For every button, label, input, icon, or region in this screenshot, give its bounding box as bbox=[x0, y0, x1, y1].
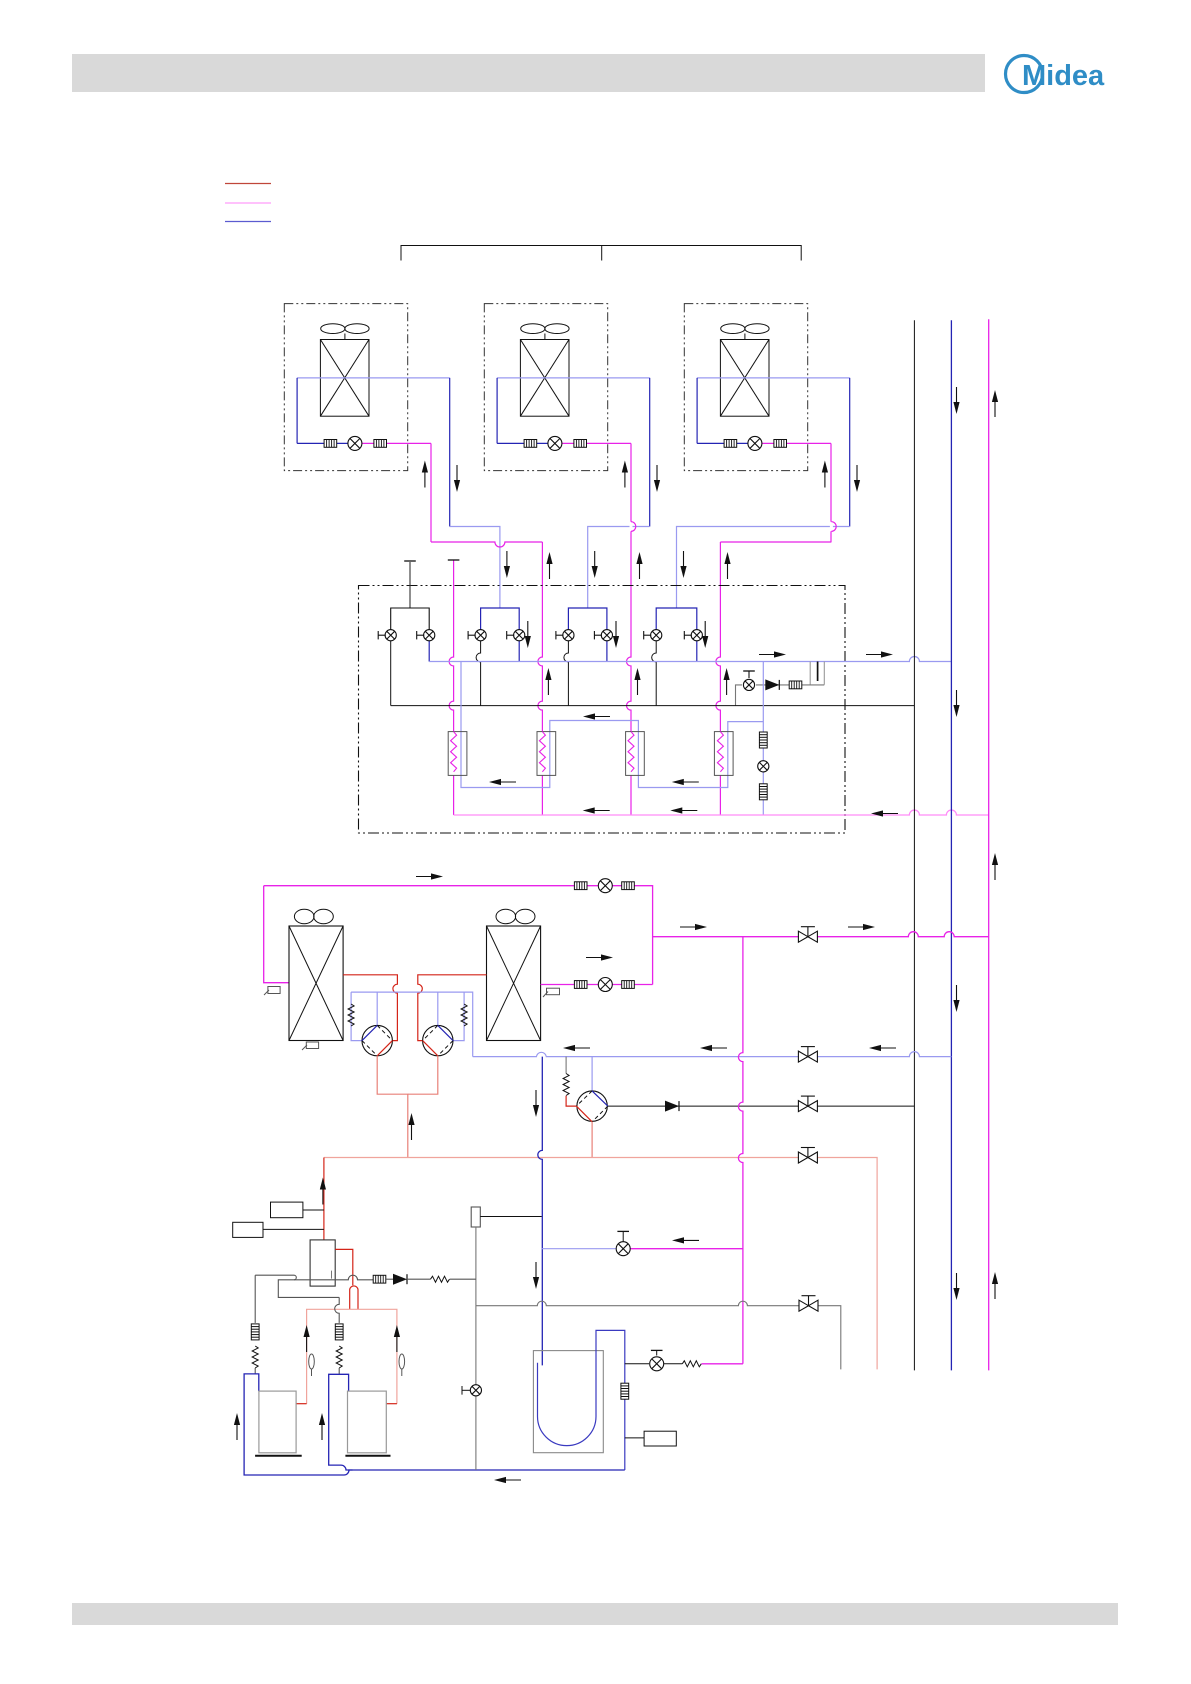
oil tank 2 bbox=[345, 1391, 390, 1456]
svg-text:Midea: Midea bbox=[1022, 60, 1105, 92]
gable header pair 4 bbox=[656, 608, 697, 630]
condenser HX B bbox=[487, 909, 541, 1040]
liquid loop top header bbox=[264, 886, 653, 985]
filter bbox=[622, 981, 635, 989]
suction drop to pump top bbox=[591, 1057, 593, 1091]
filter bbox=[622, 882, 635, 890]
liquid column 1 with cap bbox=[448, 560, 460, 815]
flow arrow bbox=[586, 954, 613, 960]
economizer bypass branch bbox=[542, 1231, 743, 1255]
hot gas bypass line bbox=[476, 1301, 841, 1369]
sensor under HX A bbox=[302, 1042, 319, 1050]
arrows beside pair valves bbox=[525, 621, 709, 648]
expansion valve bbox=[598, 978, 612, 992]
valve drop pipes: left valves to lower header bbox=[391, 641, 657, 706]
ball valve on liquid line bbox=[798, 927, 817, 943]
liquid pipe jump arcs over gas pipes bbox=[631, 522, 836, 532]
label box 1 bbox=[271, 1202, 324, 1218]
flow arrows on suction header bbox=[759, 651, 893, 657]
suction drop with damper to compressor 2 bbox=[453, 992, 467, 1041]
oil separator vessel bbox=[310, 1240, 335, 1286]
expansion valve bbox=[598, 879, 612, 893]
separator U tube bbox=[538, 1330, 625, 1470]
unit3 liquid pipe elbow bbox=[716, 542, 832, 815]
flow arrows on liquid line bbox=[680, 924, 875, 930]
compressor 2 bbox=[423, 1025, 453, 1055]
oil tank 1 bbox=[255, 1391, 302, 1456]
ball valve on oil return bbox=[798, 1148, 817, 1164]
temperature sensor capsules bbox=[309, 1354, 405, 1376]
condenser HX A bbox=[289, 909, 343, 1040]
suction gas bus bbox=[950, 320, 952, 1370]
gable header pair 3 bbox=[568, 608, 607, 630]
bottom footer bar bbox=[72, 1603, 1118, 1625]
valve drop pipes: right valves to suction header bbox=[429, 641, 697, 662]
ball valve on suction connection bbox=[798, 1047, 817, 1063]
bypass drop pipe bbox=[462, 1227, 482, 1470]
discharge gas bus bbox=[913, 320, 915, 1370]
ball valve on pump line bbox=[798, 1096, 817, 1112]
capped service pipe bbox=[404, 561, 416, 608]
oil separator outlet pipe bbox=[335, 1249, 353, 1285]
suction gas header bbox=[429, 657, 951, 662]
top header bar bbox=[72, 54, 985, 92]
flow arrow bbox=[416, 873, 443, 879]
flow arrows on riser pipes bbox=[504, 551, 731, 579]
liquid loop lower line bbox=[541, 984, 653, 986]
sensor at HX A inlet bbox=[264, 987, 280, 996]
subcooler branch with filters and valve bbox=[758, 662, 769, 816]
oil separator feed pipe bbox=[320, 1158, 326, 1240]
liquid manifold bbox=[454, 810, 989, 815]
compressor 1 bbox=[362, 1025, 392, 1055]
filter on separator outlet bbox=[621, 1383, 629, 1399]
filter and damper to tank 2 bbox=[335, 1324, 343, 1374]
filter bbox=[574, 981, 587, 989]
oil distribution arch bbox=[350, 1286, 358, 1309]
tank 1 piping bbox=[244, 1374, 353, 1475]
unit1 gas pipe elbow bbox=[450, 527, 500, 609]
oil equalize drop with damper to pump bbox=[563, 1057, 576, 1107]
top grouping bracket bbox=[401, 246, 801, 261]
high pressure gas header bbox=[391, 705, 915, 707]
oil return branch bbox=[736, 671, 825, 706]
outdoor unit 2 bbox=[484, 304, 660, 542]
flow arrows on liquid manifold bbox=[583, 807, 898, 816]
plate heat exchanger 3 bbox=[626, 732, 645, 776]
hot gas line HX B to compressor 2 bbox=[418, 975, 487, 1041]
gable header pair 1 bbox=[391, 608, 430, 630]
oil pump bbox=[576, 1091, 607, 1122]
flow arrows on suction bus bbox=[953, 387, 959, 1300]
receiver cylinder bbox=[471, 1207, 542, 1227]
compressor discharge Y pipe bbox=[377, 1056, 438, 1158]
legend line blue bbox=[225, 221, 271, 223]
hot gas line HX A to compressor 1 bbox=[343, 975, 397, 1041]
liquid bus bbox=[988, 319, 990, 1370]
plate heat exchanger 2 bbox=[537, 732, 556, 776]
plate heat exchanger 1 bbox=[448, 732, 467, 776]
flow arrows on suction connection bbox=[563, 1045, 896, 1051]
suction drop with damper to compressor 1 bbox=[348, 992, 362, 1041]
unit2 gas pipe elbow bbox=[588, 527, 650, 609]
subcooling circuit serpentine bbox=[461, 662, 763, 788]
flow arrows on liquid bus bbox=[992, 390, 998, 1299]
suction return bottom manifold bbox=[353, 1470, 625, 1483]
Midea logo bbox=[1006, 56, 1106, 93]
sensor at HX B outlet bbox=[543, 988, 560, 997]
pump drain to oil line bbox=[591, 1122, 593, 1158]
label box 2 bbox=[233, 1222, 324, 1237]
heat recovery unit enclosure bbox=[359, 586, 846, 834]
liquid line to bus bbox=[653, 932, 989, 937]
gable header pair 2 bbox=[481, 608, 520, 630]
ball valve on bypass bbox=[799, 1296, 818, 1312]
filter and damper to tank 1 bbox=[251, 1324, 259, 1374]
unit1 liquid pipe elbow bbox=[431, 542, 542, 815]
separator label box bbox=[625, 1431, 677, 1446]
outdoor unit 1 bbox=[284, 304, 460, 542]
oil distribution manifold bbox=[296, 1309, 400, 1403]
tank 2 piping bbox=[329, 1374, 353, 1470]
liquid injection branch to separator bbox=[625, 1350, 743, 1370]
gas-liquid separator feed pipe bbox=[533, 1057, 542, 1366]
suction connection header to bus bbox=[473, 1052, 952, 1057]
arrows at tank risers bbox=[234, 1413, 325, 1440]
compressor suction header bbox=[351, 992, 473, 1057]
legend line red bbox=[225, 183, 271, 185]
gas-liquid separator vessel bbox=[533, 1351, 603, 1453]
oil separator port on suction header bbox=[810, 662, 824, 685]
oil balance pipe from separator bbox=[255, 1275, 339, 1323]
oil return from separator chain bbox=[294, 1274, 476, 1285]
legend line pink bbox=[225, 202, 271, 204]
unit2 liquid pipe bbox=[627, 542, 632, 815]
plate heat exchanger 4 bbox=[714, 732, 733, 776]
filter bbox=[574, 882, 587, 890]
solenoid valves row bbox=[378, 630, 702, 641]
flow arrows on serpentine bbox=[489, 713, 699, 785]
pump discharge to bus bbox=[608, 1101, 915, 1112]
arrows on liquid columns below suction header bbox=[545, 668, 729, 695]
liquid injection riser bbox=[738, 937, 743, 1364]
oil return main line bbox=[324, 1158, 877, 1370]
outdoor unit 3 bbox=[684, 304, 860, 542]
unit3 gas pipe elbow bbox=[677, 527, 850, 609]
